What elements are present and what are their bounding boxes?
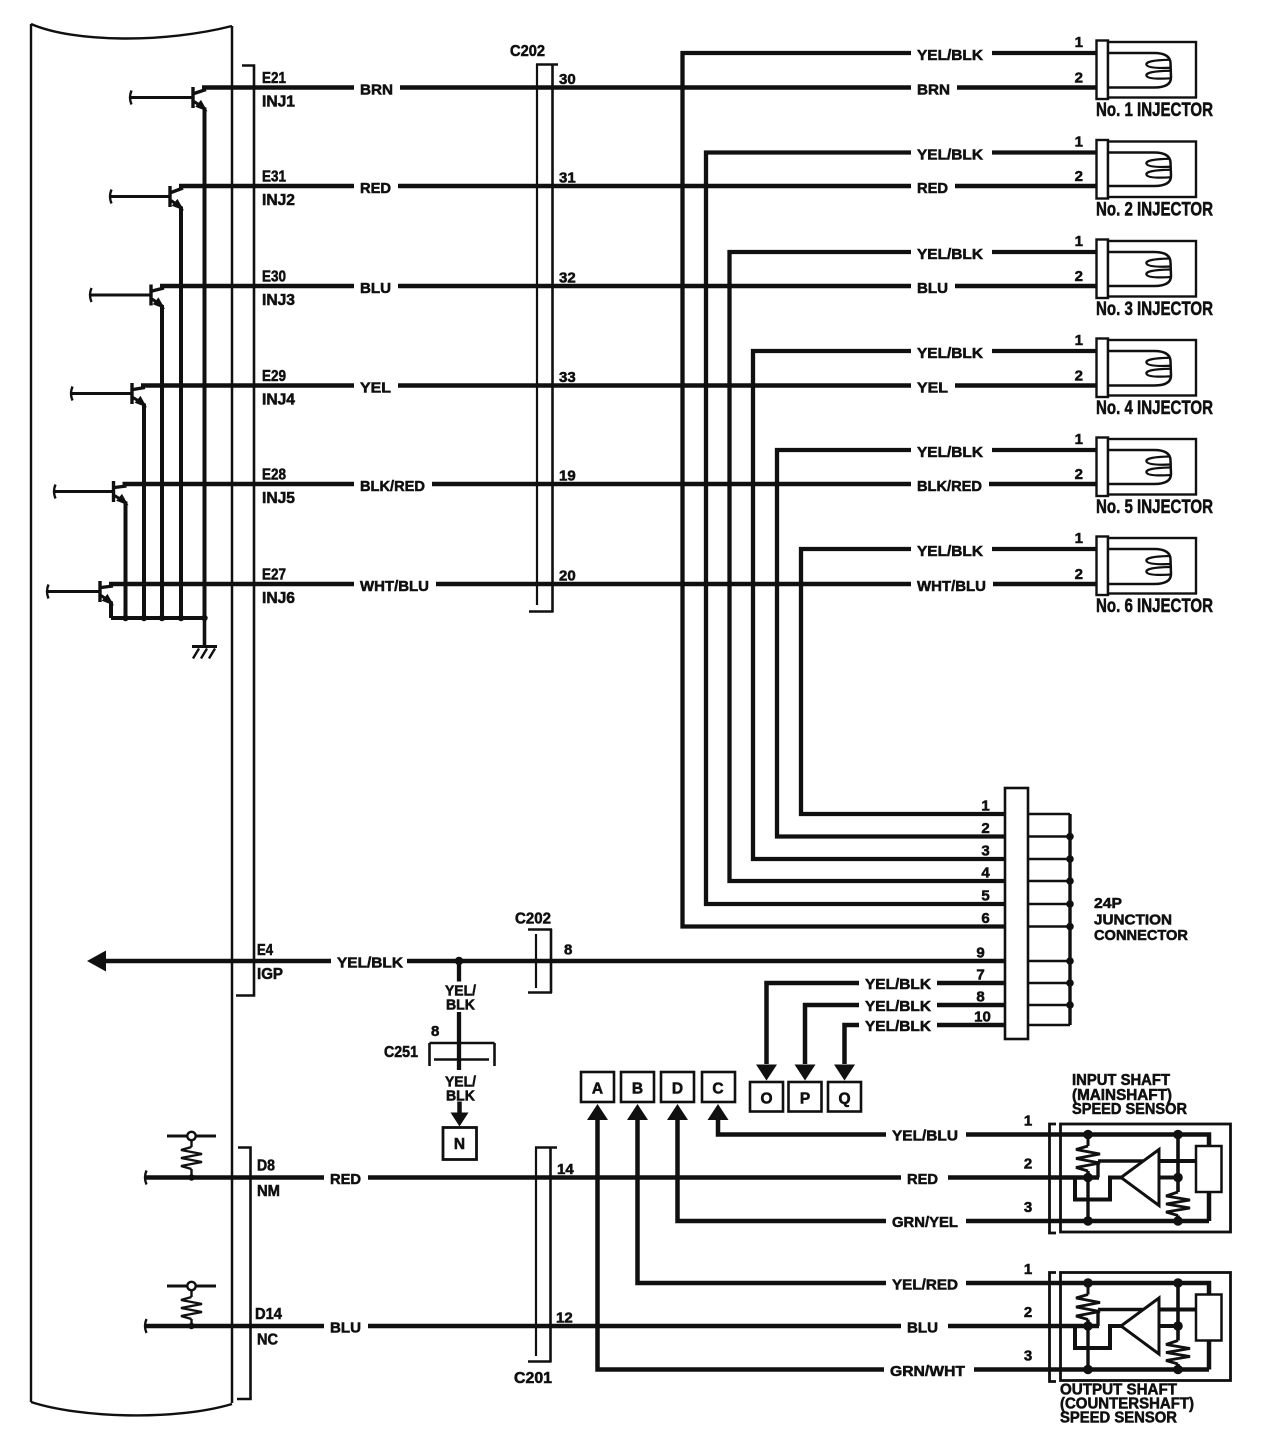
wire from C to sensor (718, 1110, 1062, 1135)
junction dot emitter bus (122, 615, 128, 621)
junction dot emitter bus (141, 615, 147, 621)
svg-text:YEL/BLK: YEL/BLK (917, 246, 983, 263)
svg-text:YEL/BLK: YEL/BLK (917, 543, 983, 560)
wire YEL/BLK injector 6 pin 1 to junction pin (801, 549, 1097, 814)
junction dot R2/wire (188, 1323, 194, 1329)
op-amp input (1121, 1150, 1159, 1206)
svg-text:NM: NM (257, 1183, 280, 1200)
wire E21/BRN row 1 (pin 2) (202, 85, 1097, 90)
svg-text:BLU: BLU (330, 1320, 361, 1337)
wire D8/NM RED (145, 1171, 147, 1185)
svg-text:N: N (454, 1136, 465, 1153)
junction pin 3 stub (1028, 858, 1070, 861)
svg-text:IGP: IGP (257, 966, 283, 983)
wire E29/YEL row 4 (pin 2) (141, 383, 1097, 388)
injector no.4 (1097, 339, 1109, 398)
svg-text:YEL: YEL (360, 380, 391, 397)
junction dot pin 5 (1066, 900, 1074, 908)
wire inverting input output (1096, 1310, 1099, 1327)
svg-text:4: 4 (981, 865, 990, 882)
input speed sensor box (1061, 1124, 1231, 1232)
junction dot pin 9 (1066, 957, 1074, 965)
wire emitter bus (111, 616, 205, 620)
injector no.5 (1097, 438, 1109, 497)
svg-text:YEL/BLK: YEL/BLK (917, 47, 983, 64)
terminal N box (443, 1128, 477, 1160)
wire emitter Q5 (124, 502, 128, 619)
label GRN/WHT (884, 1362, 974, 1378)
ground (203, 618, 207, 646)
transistor Q1 (INJ1 driver) (130, 91, 132, 105)
wire E4/IGP YEL/BLK (104, 959, 1006, 964)
svg-text:No. 4 INJECTOR: No. 4 INJECTOR (1096, 398, 1213, 419)
junction dot pin 2 (1066, 833, 1074, 841)
terminal Q box (828, 1082, 861, 1112)
svg-text:BLK: BLK (446, 998, 476, 1014)
svg-text:31: 31 (559, 170, 576, 187)
svg-text:E27: E27 (262, 567, 286, 584)
junction dot input node output (1083, 1321, 1093, 1331)
wire bottom rail input (1061, 1219, 1209, 1224)
svg-text:1: 1 (1075, 530, 1083, 547)
connector C202 (injector wires) (536, 64, 538, 605)
injector no.2 (1097, 140, 1109, 199)
svg-text:WHT/BLU: WHT/BLU (917, 578, 986, 595)
terminal C box (702, 1072, 735, 1102)
junction pin 8 stub (1028, 1004, 1070, 1007)
connector bracket D-rows (237, 1148, 251, 1400)
wire bottom rail output (1061, 1367, 1209, 1372)
svg-text:CONNECTOR: CONNECTOR (1094, 927, 1188, 944)
svg-text:No. 5 INJECTOR: No. 5 INJECTOR (1096, 497, 1213, 518)
svg-text:33: 33 (559, 369, 576, 386)
label YEL/BLK injector 4 (911, 342, 992, 360)
wire emitter Q3 (160, 305, 164, 618)
transistor Q6 (INJ6 driver) (47, 585, 49, 599)
wire amp outputs output (1159, 1308, 1196, 1312)
svg-text:2: 2 (1075, 168, 1083, 185)
label BLK/RED (right) (911, 475, 989, 493)
svg-text:1: 1 (1024, 1261, 1032, 1278)
ECU module box (torn edges) (31, 24, 232, 39)
label BRN (left) (354, 78, 400, 96)
connector 24P junction (1005, 788, 1028, 1039)
wire YEL/BLK junction to O (767, 983, 1007, 1064)
arrow into P (795, 1065, 816, 1081)
svg-text:2: 2 (1024, 1304, 1032, 1321)
coil pickup output (1196, 1295, 1222, 1341)
svg-text:B: B (632, 1081, 643, 1098)
connector bracket input sensor (1050, 1124, 1057, 1233)
svg-text:D14: D14 (255, 1306, 282, 1323)
label YEL/BLK (IGP) (331, 953, 407, 970)
svg-text:BLU: BLU (907, 1320, 938, 1337)
svg-text:2: 2 (1075, 566, 1083, 583)
wire from B to sensor (638, 1110, 1063, 1283)
wire E27/WHT/BLU row 6 (pin 2) (109, 582, 1097, 587)
svg-text:BLK/RED: BLK/RED (917, 478, 982, 495)
svg-text:YEL/BLK: YEL/BLK (917, 147, 983, 164)
svg-text:BRN: BRN (917, 82, 950, 99)
junction pin 10 stub (1028, 1024, 1070, 1027)
wire emitter Q4 (142, 404, 146, 619)
wire YEL/BLK branch to C251 (457, 961, 461, 982)
svg-text:GRN/YEL: GRN/YEL (892, 1214, 958, 1231)
wire YEL/BLK injector 2 pin 1 to junction pin (706, 153, 1097, 905)
junction dot pin 6 (1066, 923, 1074, 931)
arrow into B (627, 1104, 648, 1120)
junction dot pin 7 (1066, 979, 1074, 987)
svg-text:BLK/RED: BLK/RED (360, 478, 425, 495)
junction pin 6 stub (1028, 925, 1070, 928)
wire D14/NC BLU (145, 1319, 147, 1333)
label BRN (right) (911, 78, 957, 96)
svg-text:YEL/RED: YEL/RED (892, 1277, 958, 1294)
svg-text:C202: C202 (515, 911, 551, 928)
wire top rail input (1061, 1135, 1209, 1147)
svg-text:20: 20 (559, 568, 576, 585)
wire YEL/BLK injector 1 pin 1 to junction pin (683, 53, 1098, 927)
connector C201 (535, 1147, 537, 1356)
svg-text:30: 30 (559, 71, 576, 88)
svg-text:RED: RED (907, 1171, 938, 1188)
label RED (sensor) (901, 1169, 948, 1185)
svg-text:RED: RED (360, 180, 391, 197)
resistor left input (1087, 1135, 1090, 1147)
svg-text:3: 3 (981, 843, 989, 860)
label RED (left) (354, 177, 398, 195)
wire emitter Q6 (109, 602, 113, 619)
label YEL/BLK injector 5 (911, 441, 992, 459)
svg-text:1: 1 (1075, 332, 1083, 349)
label YEL (left) (354, 376, 398, 394)
label YEL/RED (886, 1275, 966, 1291)
svg-text:1: 1 (1075, 34, 1083, 51)
svg-text:Q: Q (838, 1091, 850, 1108)
svg-text:RED: RED (917, 180, 948, 197)
svg-text:GRN/WHT: GRN/WHT (890, 1363, 965, 1380)
terminal D box (661, 1072, 694, 1102)
svg-text:YEL/BLK: YEL/BLK (917, 444, 983, 461)
svg-text:E30: E30 (262, 269, 286, 286)
resistor right output (1176, 1283, 1180, 1341)
op-amp output (1121, 1298, 1159, 1354)
label YEL/BLK (P) (859, 996, 937, 1013)
wire E31/RED row 2 (pin 2) (179, 184, 1097, 189)
svg-text:RED: RED (330, 1171, 361, 1188)
transistor Q2 (INJ2 driver) (110, 190, 112, 204)
transistor Q4 (INJ4 driver) (71, 387, 73, 401)
wire YEL/BLK junction to Q (845, 1025, 1007, 1064)
junction dot emitter bus (201, 615, 207, 621)
svg-text:JUNCTION: JUNCTION (1094, 912, 1172, 929)
svg-text:BLU: BLU (917, 280, 948, 297)
svg-text:E29: E29 (262, 368, 286, 385)
label YEL/BLK injector 2 (911, 143, 992, 161)
transistor Q5 (INJ5 driver) (54, 485, 56, 499)
svg-text:E4: E4 (257, 942, 273, 959)
svg-text:1: 1 (1024, 1113, 1032, 1130)
label YEL/BLK injector 6 (911, 540, 992, 558)
terminal A box (581, 1072, 614, 1102)
junction pin 9 stub (1028, 960, 1070, 963)
junction dot IGP branch (455, 957, 463, 965)
wire YEL/BLK injector 4 pin 1 to junction pin (753, 351, 1097, 859)
wire E28/BLK/RED row 5 (pin 2) (123, 482, 1098, 487)
svg-text:SPEED SENSOR: SPEED SENSOR (1060, 1410, 1177, 1427)
svg-text:D8: D8 (257, 1158, 275, 1175)
svg-text:24P: 24P (1094, 895, 1122, 912)
svg-text:C: C (712, 1081, 723, 1098)
terminal P box (789, 1082, 822, 1112)
svg-text:BLU: BLU (360, 280, 391, 297)
svg-text:14: 14 (557, 1161, 574, 1178)
junction dot R1/wire (188, 1174, 194, 1180)
label RED (right) (911, 177, 955, 195)
label BLU (right) (911, 277, 955, 295)
svg-text:6: 6 (981, 910, 989, 927)
svg-text:INJ5: INJ5 (262, 490, 295, 507)
junction dot pin 3 (1066, 855, 1074, 863)
junction dot amp input (1173, 1173, 1183, 1183)
wire YEL/BLK injector 5 pin 1 to junction pin (777, 450, 1097, 837)
svg-text:19: 19 (559, 468, 576, 485)
connector bracket E-rows (236, 66, 254, 996)
svg-text:YEL/BLK: YEL/BLK (865, 976, 931, 993)
junction dot emitter bus (178, 615, 184, 621)
svg-text:SPEED SENSOR: SPEED SENSOR (1072, 1101, 1187, 1118)
junction dot pin 8 (1066, 1001, 1074, 1009)
arrow into Q (834, 1065, 855, 1081)
output speed sensor box (1061, 1273, 1231, 1381)
resistor R2 (pull-up) (167, 1285, 216, 1288)
svg-text:INJ3: INJ3 (262, 292, 295, 309)
svg-text:1: 1 (1075, 134, 1083, 151)
wire staircase to amp output (1075, 1326, 1122, 1348)
svg-text:D: D (672, 1081, 683, 1098)
svg-text:8: 8 (431, 1023, 439, 1040)
label RED (D8 left) (324, 1169, 368, 1186)
wire YEL/BLK injector 3 pin 1 to junction pin (730, 252, 1098, 881)
terminal B box (621, 1072, 654, 1102)
label GRN/YEL (886, 1213, 966, 1229)
svg-text:INJ2: INJ2 (262, 192, 295, 209)
connector bracket output sensor (1050, 1273, 1057, 1382)
injector no.3 (1097, 240, 1109, 299)
label YEL/BLK injector 3 (911, 243, 992, 261)
svg-text:2: 2 (1024, 1156, 1032, 1173)
junction pin 4 stub (1028, 880, 1070, 883)
svg-text:3: 3 (1024, 1348, 1032, 1365)
wire from A to sensor (598, 1110, 1063, 1370)
svg-text:32: 32 (559, 270, 576, 287)
svg-text:YEL/BLK: YEL/BLK (917, 345, 983, 362)
svg-text:P: P (800, 1091, 810, 1108)
label BLU (sensor) (901, 1318, 948, 1334)
svg-text:BRN: BRN (360, 82, 393, 99)
wire staircase to amp input (1075, 1178, 1122, 1200)
arrow into N (451, 1113, 469, 1127)
wire E30/BLU row 3 (pin 2) (160, 284, 1097, 289)
label BLK/RED (left) (354, 475, 432, 493)
svg-text:No. 2 INJECTOR: No. 2 INJECTOR (1096, 200, 1213, 221)
arrow IGP into ECU (87, 951, 106, 972)
junction dots rails input (1083, 1130, 1093, 1140)
coil pickup input (1196, 1146, 1222, 1192)
label YEL/BLU (886, 1126, 966, 1142)
label WHT/BLU (right) (911, 575, 993, 593)
transistor Q3 (INJ3 driver) (90, 288, 92, 302)
svg-text:1: 1 (1075, 431, 1083, 448)
junction dots rails output (1083, 1278, 1093, 1288)
arrow into C (708, 1104, 729, 1120)
svg-text:O: O (760, 1091, 772, 1108)
arrow into D (667, 1104, 688, 1120)
terminal O box (750, 1082, 783, 1112)
svg-text:YEL/BLK: YEL/BLK (865, 1018, 931, 1035)
wire YEL/BLK junction to P (805, 1005, 1006, 1064)
wire from D to sensor (678, 1110, 1063, 1221)
svg-text:2: 2 (1075, 268, 1083, 285)
arrow into A (587, 1104, 608, 1120)
resistor left output (1087, 1283, 1090, 1295)
resistor right input (1176, 1135, 1180, 1193)
svg-text:1: 1 (981, 798, 989, 815)
label BLU (D14 left) (324, 1317, 368, 1334)
svg-text:YEL: YEL (917, 380, 948, 397)
junction pin 5 stub (1028, 903, 1070, 906)
label YEL/BLK (O) (859, 974, 937, 991)
svg-text:C251: C251 (384, 1044, 418, 1061)
junction pin 1 stub (1028, 813, 1070, 816)
arrow into O (756, 1065, 777, 1081)
svg-text:YEL/BLU: YEL/BLU (892, 1128, 958, 1145)
svg-text:2: 2 (1075, 70, 1083, 87)
svg-text:1: 1 (1075, 233, 1083, 250)
junction pin 2 stub (1028, 835, 1070, 838)
junction dot amp output (1173, 1321, 1183, 1331)
svg-text:E21: E21 (262, 70, 286, 87)
junction dot input node input (1083, 1173, 1093, 1183)
resistor R1 (pull-up) (167, 1135, 216, 1138)
junction dot emitter bus (159, 615, 165, 621)
svg-text:E31: E31 (262, 169, 286, 186)
svg-text:No. 6 INJECTOR: No. 6 INJECTOR (1096, 596, 1213, 617)
wire emitter Q2 (179, 207, 183, 619)
svg-text:C202: C202 (510, 43, 545, 60)
connector C251 (430, 1042, 495, 1045)
svg-text:5: 5 (981, 888, 989, 905)
svg-text:C201: C201 (514, 1370, 552, 1387)
svg-text:INJ4: INJ4 (262, 392, 295, 409)
label YEL (right) (911, 376, 955, 394)
svg-text:3: 3 (1024, 1199, 1032, 1216)
svg-text:INJ1: INJ1 (262, 94, 295, 111)
wire emitter Q1 (203, 108, 207, 619)
label BLU (left) (354, 277, 398, 295)
wire amp outputs input (1159, 1159, 1196, 1163)
svg-text:WHT/BLU: WHT/BLU (360, 578, 429, 595)
label WHT/BLU (left) (354, 575, 436, 593)
svg-text:2: 2 (981, 820, 989, 837)
svg-text:12: 12 (556, 1310, 573, 1327)
svg-text:YEL/BLK: YEL/BLK (865, 998, 931, 1015)
injector no.1 (1097, 41, 1109, 100)
svg-text:INJ6: INJ6 (262, 590, 295, 607)
wire top rail output (1061, 1283, 1209, 1295)
svg-text:No. 3 INJECTOR: No. 3 INJECTOR (1096, 299, 1213, 320)
svg-text:2: 2 (1075, 466, 1083, 483)
svg-text:2: 2 (1075, 368, 1083, 385)
wire junction bus (1068, 814, 1071, 1025)
svg-text:E28: E28 (262, 467, 286, 484)
svg-text:9: 9 (976, 945, 984, 962)
junction dot pin 4 (1066, 877, 1074, 885)
wire inverting input input (1096, 1161, 1099, 1178)
label YEL/BLK (Q) (859, 1016, 937, 1033)
svg-text:8: 8 (564, 942, 572, 959)
label YEL/BLK injector 1 (911, 44, 992, 62)
junction pin 7 stub (1028, 982, 1070, 985)
svg-text:A: A (592, 1081, 603, 1098)
svg-text:YEL/BLK: YEL/BLK (337, 955, 403, 972)
injector no.6 (1097, 537, 1109, 596)
svg-text:NC: NC (257, 1332, 278, 1349)
svg-text:No. 1 INJECTOR: No. 1 INJECTOR (1096, 100, 1213, 121)
connector C202 (IGP, pin 8) (535, 934, 537, 988)
